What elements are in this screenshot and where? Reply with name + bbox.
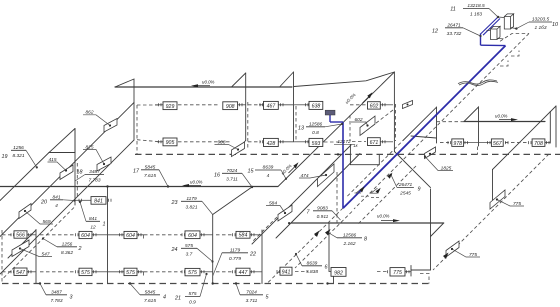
dashed row L2 between riser36 and 575a [40,271,75,273]
box 575c [185,268,200,275]
arrow on Da at node 9 [387,173,392,179]
leader 3 [40,284,46,295]
svg-text:13203.5: 13203.5 [532,17,550,23]
svg-text:1 1б3: 1 1б3 [470,12,482,18]
riser x550 from edge diagonal [549,112,551,144]
svg-text:0.8: 0.8 [312,130,319,136]
svg-text:12172: 12172 [337,139,351,145]
wall diagonal left lower (through radiators 825,547) [0,140,134,274]
svg-text:604: 604 [81,233,90,239]
svg-text:10: 10 [552,22,558,28]
dashed row L2 between 575b and 575c [144,271,182,273]
svg-text:1256: 1256 [62,241,73,247]
svg-text:575: 575 [81,270,90,276]
svg-text:566: 566 [16,233,25,239]
stub 775 right [405,271,411,273]
svg-text:8.321: 8.321 [12,153,24,159]
arrow on Dc up-right [314,231,320,238]
svg-text:8.362: 8.362 [61,250,73,256]
svg-text:18: 18 [77,170,83,176]
wire riser x213 diagonal from main H3 [213,187,252,215]
radiator para 862 [104,119,117,133]
flow direction labels with arrows [182,80,518,223]
wire diagonal riser13 to lower right wing [394,152,430,188]
blue riser top double diagonal [481,17,499,34]
leader 12 [463,28,481,36]
stub 566 right to riser36 [27,234,36,236]
box 547 [14,268,27,275]
box 908 [223,102,238,110]
leader 474 [299,175,326,178]
flag riser 18 top-left [115,79,134,87]
dashed row U1 right of riser246 [248,104,261,106]
dashed diagonal Dd [295,212,352,269]
dashed row U1 stub 602 [350,104,366,106]
svg-text:7: 7 [307,210,311,216]
svg-text:11: 11 [450,7,456,13]
wire main floor2 right H2 [464,121,545,123]
svg-text:0.9: 0.9 [189,300,196,306]
radiator para small x430 [425,147,436,159]
svg-text:775: 775 [469,252,477,258]
stub 575b right short drop [137,272,144,276]
leader 1 [80,202,86,221]
svg-text:23: 23 [171,200,178,206]
riser x294 upper wall [293,72,295,142]
svg-text:978: 978 [453,141,462,147]
pipe hook below 671 [350,145,379,165]
box 575b [124,268,137,275]
blue vertical riser center [342,122,344,208]
leader 775 bottom [452,249,480,257]
svg-text:1179: 1179 [230,247,241,253]
svg-text:602: 602 [370,103,379,109]
dashed row U1 stub left [137,104,158,106]
svg-text:и0.0%: и0.0% [202,80,215,85]
box 978 [452,139,464,147]
dashed diagonal Dc from blue corner to bottom main [267,208,343,284]
svg-text:602: 602 [354,117,362,123]
radiator prisms top right [491,14,514,40]
svg-text:26471: 26471 [398,182,413,188]
leader 6 [296,254,302,266]
dashed companion riser246 [247,102,249,148]
dashed return diagonal Da (parallel right of blue) [354,34,529,210]
leader 21 [200,274,207,297]
box 566 [14,231,27,238]
svg-text:20: 20 [40,200,47,206]
riser x246 upper wall [245,73,247,141]
svg-text:428: 428 [267,141,276,147]
pin prism2 bottom right [497,38,504,40]
leader 2 [43,239,57,247]
svg-text:4: 4 [55,203,58,209]
small flow arrows on diagonals [314,173,449,259]
dashed vertical left x2 [1,230,3,284]
riser St at x134 upper [133,87,135,103]
box 929 [163,102,177,110]
svg-text:24: 24 [171,247,178,253]
blue horizontal jog [481,44,506,46]
svg-text:7024: 7024 [246,289,257,295]
right wing right edge diagonal from top [493,106,557,170]
leader 1825 [425,157,453,171]
svg-text:671: 671 [370,140,379,146]
svg-text:1 1б3: 1 1б3 [534,25,546,31]
leader 908 para [215,145,239,150]
right edge vertical x556 [555,106,557,147]
pin prism1 left [498,16,504,19]
leader 569 [25,211,53,224]
riser x262 [261,230,263,284]
wire vertical x430.5 right wing [430,189,432,270]
leader 20 [63,199,75,202]
svg-text:415: 415 [48,157,56,163]
radiator 584 para branch diagonal solid long [252,145,351,244]
radiator para 415 [60,165,73,180]
box 982 [331,268,346,277]
svg-text:908: 908 [226,104,235,110]
svg-text:569: 569 [42,219,50,225]
svg-text:2.162: 2.162 [342,241,355,247]
riser x213 vertical [212,215,214,284]
dashed jog step lower [500,61,508,67]
svg-text:4: 4 [267,173,270,179]
box 604b [124,231,137,238]
svg-text:26471: 26471 [446,22,461,28]
leader 17 [159,170,168,187]
svg-text:841: 841 [89,216,97,222]
leader 5 [236,284,240,295]
riser x36 lower left [35,230,37,284]
radiator para 474 [318,164,335,187]
leader 16 [242,173,252,187]
return main floor2 dashed H6 [135,153,560,155]
svg-text:604: 604 [188,233,197,239]
wire supply main floor2 left H1 [115,86,292,88]
stub 602 right to riser393 [380,104,393,106]
dashed row U2 stub 671 [352,141,366,143]
leader 24 [197,248,213,261]
dashed step at end of bottom main [420,274,429,284]
wall diagonal from flag 18 hyp extended [0,153,49,201]
svg-text:8639: 8639 [307,260,318,266]
svg-text:21: 21 [174,296,181,302]
leader 775 mid [497,200,524,207]
leader 13 [325,124,342,127]
riser x478.5 down to row [478,122,480,147]
riser x107.5 [107,187,109,284]
svg-text:8639: 8639 [263,165,274,171]
filled radiator under 638 [325,110,335,115]
box 905 [163,138,177,146]
dashed row L2 left stub 547 [2,271,13,273]
svg-text:5845: 5845 [145,164,156,170]
blue drop from filled radiator [329,115,331,123]
svg-text:638: 638 [312,104,321,110]
flag at riser x294 [280,72,294,87]
stub 604b right short drop [137,235,144,239]
svg-text:575: 575 [188,291,196,297]
svg-text:12: 12 [90,224,96,230]
svg-text:15: 15 [248,169,255,175]
arrow on diag flow b [376,188,381,194]
dashed companion riser294 [295,106,297,140]
riser 13 vertical x394 [393,72,395,152]
riser 18 vertical x75 [74,129,76,206]
parallelogram radiators with dots [12,101,505,258]
dashed corner box upper-left wall [136,105,138,154]
dashed row L1 stub 584 [216,234,232,236]
arrow on De up-right [443,253,449,260]
svg-text:6: 6 [325,265,328,271]
svg-text:1: 1 [103,222,106,228]
stub 905 left [157,141,163,143]
leader 602 para [351,122,368,126]
svg-text:2: 2 [78,246,82,252]
box 671 [368,138,381,146]
stub 428 right [278,141,294,143]
dashed companion riser393 [395,104,397,141]
svg-text:474: 474 [300,173,308,179]
dashed row U2 between 905 and 428 [178,141,230,143]
leader 22 [213,253,222,276]
box 575a [79,268,92,275]
dashed return diagonal lower-left corner [2,208,74,280]
svg-text:841: 841 [94,199,103,205]
wall edge diagonal right wing left [276,154,360,239]
svg-text:3.7: 3.7 [186,251,193,257]
svg-text:584: 584 [239,233,248,239]
svg-text:584: 584 [269,200,277,206]
pin prism1 right bottom [511,28,517,29]
dashed stub right of 941 [295,271,308,273]
dashed row U1 between 929 and 908 [178,104,219,106]
box 593 [309,138,323,146]
dashed row U2 between 593 and blue riser [324,141,340,143]
radiator para 602 [360,116,375,136]
wire bottom stub y270 [411,269,431,271]
foot of box 982 [333,277,335,284]
stub 593 left [294,141,309,143]
return main bottom dashed H5 [2,283,429,285]
svg-text:1179: 1179 [186,196,197,202]
svg-text:3.711: 3.711 [246,298,258,304]
stub 908 right to riser [238,104,246,106]
dashed right edge diagonal De [433,154,549,270]
svg-text:708: 708 [534,141,543,147]
svg-text:9: 9 [418,187,421,193]
wire main H4 right wing floor1 [291,222,444,224]
svg-text:5845: 5845 [145,289,156,295]
svg-text:7.783: 7.783 [50,298,62,304]
dashed row L1 left stub 566 [2,234,13,236]
box 941 [280,267,292,275]
leader 19 [26,150,37,167]
valve tick marks [11,103,549,273]
svg-text:547: 547 [41,251,49,257]
svg-text:13: 13 [298,126,304,132]
arrow on diag flow a [360,186,365,192]
svg-text:4: 4 [163,295,166,301]
svg-text:905: 905 [166,140,175,146]
svg-text:447: 447 [239,270,249,276]
wire H4 end jog [431,223,444,237]
flag at riser x478.5 [464,107,479,122]
wire vertical x411 to box 775 [410,266,412,277]
pin prism2 top left [487,30,491,32]
svg-text:604: 604 [126,233,135,239]
leader 10 [516,22,529,29]
arrow on Dd up-right [325,229,331,236]
leader 415 [48,162,67,171]
svg-text:1к: 1к [353,143,358,148]
svg-text:и0.0%: и0.0% [495,113,508,118]
dashed row L1 between 604b and 604c [144,234,182,236]
stub 604b left [108,234,125,236]
svg-text:547: 547 [16,270,26,276]
radiator para small right of riser 394 [403,101,413,109]
flag structure G2 small triangle x436.5 [403,107,437,143]
dashed stub left of 978 [440,142,449,144]
flow label G1 rotated lower [280,163,292,175]
svg-text:575: 575 [126,270,135,276]
radiator value boxes [14,101,545,276]
stub 841 left to riser75 [75,199,91,201]
blue supply pipe [330,17,506,208]
dashed under 775 box stub [377,271,388,273]
box 428 [264,138,279,146]
wall diagonal left upper (through radiators 862,415,569) [0,103,134,237]
leader 8 [329,233,337,238]
svg-text:908: 908 [217,139,225,145]
stub 671 right [380,141,393,143]
svg-text:575: 575 [185,243,193,249]
blue long diagonal main [343,46,506,209]
flow label G1 rotated upper [344,92,356,104]
svg-text:841: 841 [52,194,60,200]
svg-text:775: 775 [393,270,402,276]
svg-text:0.779: 0.779 [229,256,241,262]
svg-text:22: 22 [249,252,256,258]
stub 575a right [92,271,108,273]
dashed companion riser 18 [76,163,78,199]
svg-text:862: 862 [85,110,93,116]
dashed H2 extension left [437,121,465,123]
svg-text:7024: 7024 [227,168,238,174]
vertical x329 bottom center to box 982 [328,223,330,272]
svg-text:5.838: 5.838 [306,269,318,275]
vertical x492.5 mid right [492,170,494,205]
riser x134 mid [133,103,135,141]
wire right wing row line [464,142,492,144]
svg-text:1256: 1256 [13,145,24,151]
stub 982 left [329,271,331,273]
dashed 584 para companion [252,217,277,242]
leader 584 [266,206,285,214]
flag riser 18 [49,129,75,153]
radiator para 584 [278,205,292,221]
dashed vertical x350 below 638 [349,115,351,141]
svg-text:7.615: 7.615 [144,173,156,179]
svg-text:16: 16 [214,173,220,179]
svg-text:и0.0%: и0.0% [344,92,356,104]
svg-text:19: 19 [2,154,8,160]
dashed jog step upper [511,51,519,57]
dashed row L2 stub 447 [216,271,232,273]
svg-text:775: 775 [513,201,521,207]
svg-text:575: 575 [188,270,197,276]
dashed return connector from prism [500,34,529,42]
break squiggle on mains [458,80,497,84]
svg-text:8: 8 [364,237,367,243]
svg-text:33.732: 33.732 [447,31,462,37]
dashed row right wing between 567 and 708 [505,142,529,144]
svg-text:825: 825 [85,144,93,150]
stub 467 left [259,104,264,106]
svg-text:3: 3 [70,295,73,301]
box 602 [368,102,381,109]
wire diagonal main G1 to riser 13 [278,72,394,187]
radiator para 825 [97,157,111,171]
box 775 [390,268,405,276]
stub 575b left [108,271,125,273]
radiator para 569 [19,204,31,219]
svg-text:467: 467 [267,104,277,110]
leader 825 [83,150,104,165]
leader 11 [489,9,498,18]
stub 575c right [200,271,213,273]
leader 4 [130,284,140,295]
flag at riser x246 [232,73,246,87]
leader 862 [83,115,110,126]
prism radiator lower [491,26,501,39]
svg-text:567: 567 [493,141,503,147]
wire main floor1 left H3 [0,186,278,188]
svg-text:12: 12 [432,29,438,35]
radiator para 775 bottom right [446,241,459,257]
stub 708 right [545,142,550,144]
stub 467 right to riser294 [278,104,294,106]
jog riser x246 to radiator para 908 [238,141,246,149]
svg-text:12586: 12586 [309,121,323,127]
connection stub lines solid [27,105,550,276]
svg-text:3.821: 3.821 [185,204,197,210]
svg-text:7.783: 7.783 [88,178,100,184]
svg-text:1825: 1825 [441,165,452,171]
dashed vertical x337 [336,172,338,223]
svg-text:3487: 3487 [89,169,100,175]
dashed G2 extension left of blue [346,139,405,198]
svg-text:929: 929 [166,104,175,110]
box 567 [491,139,503,147]
blue vertical top [480,34,482,46]
dashed return diagonal Db short [358,166,416,224]
svg-text:0.911: 0.911 [317,214,329,220]
svg-text:3.711: 3.711 [226,176,238,182]
stub 604a right to riser107 [92,234,108,236]
svg-text:9083: 9083 [317,205,328,211]
leader 547 [20,249,52,257]
svg-text:17: 17 [133,169,140,175]
branch diagonal to radiator 547 para [8,230,36,258]
dashed row L1 between riser36 and 604a [40,234,75,236]
box 467 [264,101,279,109]
leader 23 [202,201,213,214]
svg-text:5: 5 [266,295,270,301]
radiator para 547 wide [12,240,29,257]
box 447 [236,268,250,275]
